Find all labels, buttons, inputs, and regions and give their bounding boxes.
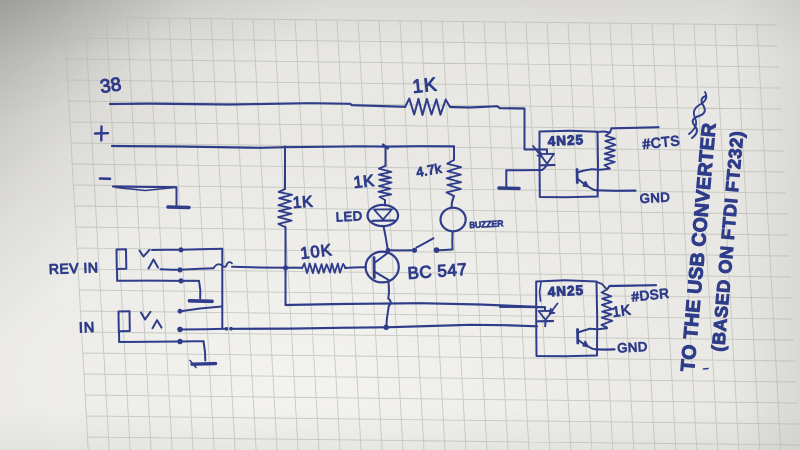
svg-text:BUZZER: BUZZER	[469, 218, 503, 230]
svg-text:38: 38	[99, 74, 123, 98]
svg-text:1K: 1K	[611, 303, 632, 321]
svg-text:REV IN: REV IN	[49, 259, 99, 277]
svg-text:4N25: 4N25	[547, 283, 584, 300]
svg-text:LED: LED	[335, 208, 363, 224]
svg-text:1K: 1K	[353, 172, 376, 192]
svg-text:GND: GND	[639, 189, 670, 206]
svg-text:1K: 1K	[411, 74, 438, 98]
svg-text:IN: IN	[79, 320, 96, 337]
svg-text:GND: GND	[617, 339, 648, 356]
svg-text:4N25: 4N25	[547, 132, 584, 149]
svg-text:10K: 10K	[299, 241, 333, 263]
svg-text:#DSR: #DSR	[631, 286, 670, 305]
svg-text:BC 547: BC 547	[407, 260, 468, 283]
svg-text:1K: 1K	[292, 194, 314, 212]
svg-text:#CTS: #CTS	[642, 132, 681, 152]
svg-text:4.7k: 4.7k	[415, 161, 443, 180]
